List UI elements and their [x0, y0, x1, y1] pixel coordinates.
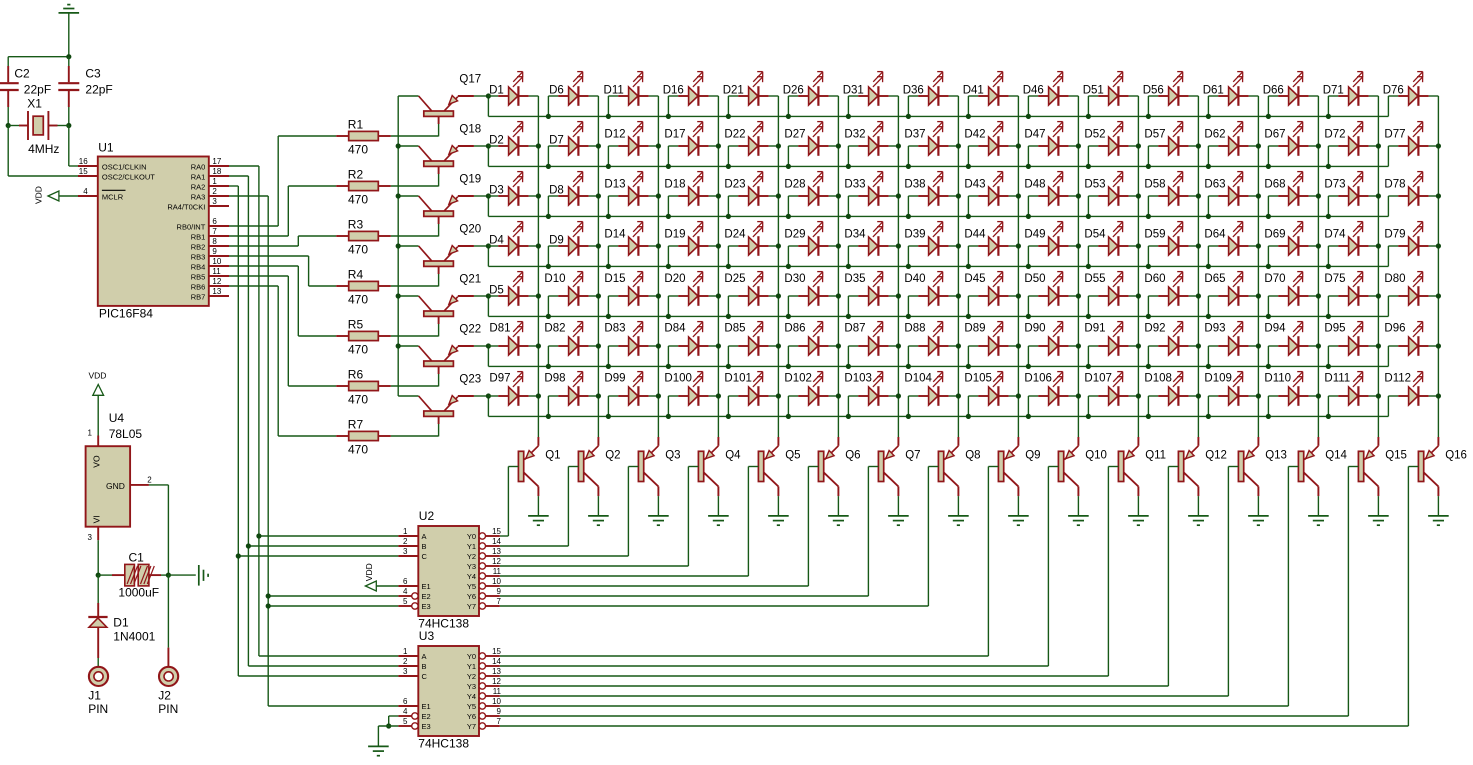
svg-text:D25: D25: [724, 273, 745, 285]
svg-text:11: 11: [212, 267, 221, 276]
svg-text:D12: D12: [604, 129, 625, 141]
svg-text:14: 14: [492, 657, 501, 666]
svg-text:D23: D23: [724, 179, 745, 191]
svg-text:1: 1: [212, 177, 217, 186]
svg-text:D77: D77: [1384, 129, 1405, 141]
svg-text:10: 10: [492, 697, 501, 706]
svg-text:VDD: VDD: [34, 186, 44, 204]
svg-text:Y6: Y6: [467, 592, 476, 601]
svg-text:D48: D48: [1024, 179, 1045, 191]
svg-text:E2: E2: [422, 592, 431, 601]
svg-text:8: 8: [212, 237, 217, 246]
svg-text:D1: D1: [113, 616, 129, 630]
svg-text:Q20: Q20: [459, 223, 481, 235]
svg-text:Q12: Q12: [1205, 450, 1227, 462]
svg-text:D8: D8: [549, 185, 564, 197]
svg-text:D43: D43: [964, 179, 985, 191]
svg-text:15: 15: [492, 647, 501, 656]
svg-text:Q2: Q2: [605, 450, 620, 462]
svg-text:D107: D107: [1084, 373, 1112, 385]
svg-text:6: 6: [403, 577, 408, 586]
svg-text:E2: E2: [422, 712, 431, 721]
svg-text:9: 9: [497, 587, 502, 596]
svg-text:D66: D66: [1263, 85, 1284, 97]
svg-text:D80: D80: [1384, 273, 1405, 285]
svg-text:Y0: Y0: [467, 652, 476, 661]
svg-text:10: 10: [212, 257, 221, 266]
svg-text:D94: D94: [1264, 323, 1286, 335]
svg-text:Y7: Y7: [467, 602, 476, 611]
svg-text:D75: D75: [1324, 273, 1345, 285]
svg-text:VO: VO: [92, 455, 102, 468]
svg-text:D76: D76: [1383, 85, 1404, 97]
svg-text:RB7: RB7: [191, 292, 206, 301]
svg-text:D35: D35: [844, 273, 865, 285]
svg-text:D45: D45: [964, 273, 985, 285]
svg-text:Q5: Q5: [785, 450, 800, 462]
svg-text:9: 9: [212, 247, 217, 256]
svg-text:Y2: Y2: [467, 672, 476, 681]
svg-text:18: 18: [212, 167, 221, 176]
svg-text:MCLR: MCLR: [102, 193, 124, 202]
svg-text:C1: C1: [129, 551, 145, 565]
svg-text:13: 13: [492, 667, 501, 676]
svg-text:PIC16F84: PIC16F84: [99, 307, 153, 321]
svg-text:E3: E3: [422, 602, 431, 611]
svg-text:D36: D36: [903, 85, 924, 97]
svg-text:Q6: Q6: [845, 450, 860, 462]
svg-text:470: 470: [348, 343, 368, 357]
svg-text:RA3: RA3: [191, 192, 206, 201]
svg-text:D60: D60: [1144, 273, 1165, 285]
svg-text:Q22: Q22: [459, 323, 481, 335]
svg-text:D14: D14: [604, 229, 626, 241]
svg-text:1N4001: 1N4001: [113, 629, 155, 643]
svg-text:D1: D1: [489, 85, 504, 97]
svg-text:RB2: RB2: [191, 242, 206, 251]
svg-text:D109: D109: [1204, 373, 1232, 385]
svg-text:PIN: PIN: [158, 702, 178, 716]
svg-text:1: 1: [88, 429, 93, 438]
svg-text:Q16: Q16: [1445, 450, 1467, 462]
svg-text:13: 13: [212, 287, 221, 296]
svg-text:470: 470: [348, 393, 368, 407]
svg-text:D32: D32: [844, 129, 865, 141]
svg-text:D86: D86: [784, 323, 805, 335]
svg-text:RA1: RA1: [191, 172, 206, 181]
svg-text:D20: D20: [664, 273, 685, 285]
svg-text:Y2: Y2: [467, 552, 476, 561]
svg-text:A: A: [422, 652, 427, 661]
svg-text:Q3: Q3: [665, 450, 680, 462]
svg-text:OSC1/CLKIN: OSC1/CLKIN: [102, 163, 147, 172]
svg-text:22pF: 22pF: [24, 82, 51, 96]
svg-text:E1: E1: [422, 582, 431, 591]
svg-text:R5: R5: [348, 318, 364, 332]
svg-text:RB0/INT: RB0/INT: [177, 222, 206, 231]
svg-text:D70: D70: [1264, 273, 1285, 285]
svg-text:D27: D27: [784, 129, 805, 141]
svg-text:D88: D88: [904, 323, 925, 335]
svg-text:A: A: [422, 532, 427, 541]
svg-text:Y1: Y1: [467, 542, 476, 551]
svg-text:D57: D57: [1144, 129, 1165, 141]
svg-text:13: 13: [492, 547, 501, 556]
svg-text:16: 16: [79, 157, 88, 166]
svg-text:D110: D110: [1264, 373, 1291, 385]
svg-text:5: 5: [403, 597, 408, 606]
svg-text:D50: D50: [1024, 273, 1045, 285]
svg-text:D104: D104: [904, 373, 932, 385]
svg-text:D6: D6: [549, 85, 564, 97]
svg-text:2: 2: [403, 537, 408, 546]
svg-text:22pF: 22pF: [85, 82, 112, 96]
svg-text:C: C: [422, 672, 428, 681]
svg-text:Y6: Y6: [467, 712, 476, 721]
svg-text:D65: D65: [1204, 273, 1225, 285]
svg-text:2: 2: [147, 476, 152, 485]
svg-text:11: 11: [493, 687, 502, 696]
svg-text:D49: D49: [1024, 229, 1045, 241]
svg-text:D52: D52: [1084, 129, 1105, 141]
svg-text:470: 470: [348, 243, 368, 257]
svg-text:12: 12: [492, 677, 501, 686]
svg-text:D81: D81: [489, 323, 510, 335]
svg-text:D18: D18: [664, 179, 685, 191]
svg-text:4: 4: [403, 587, 408, 596]
svg-text:15: 15: [79, 167, 88, 176]
svg-text:D79: D79: [1384, 229, 1405, 241]
svg-text:D17: D17: [664, 129, 685, 141]
svg-text:R6: R6: [348, 368, 364, 382]
svg-text:Q21: Q21: [459, 273, 481, 285]
svg-text:C: C: [422, 552, 428, 561]
svg-text:D74: D74: [1324, 229, 1346, 241]
svg-text:D71: D71: [1323, 85, 1344, 97]
svg-text:D9: D9: [549, 235, 564, 247]
svg-text:D40: D40: [904, 273, 925, 285]
svg-text:D64: D64: [1204, 229, 1226, 241]
svg-text:3: 3: [88, 533, 93, 542]
svg-text:D106: D106: [1024, 373, 1052, 385]
svg-text:RA4/T0CKI: RA4/T0CKI: [167, 202, 205, 211]
svg-text:3: 3: [212, 197, 217, 206]
svg-text:D22: D22: [724, 129, 745, 141]
svg-text:D10: D10: [544, 273, 565, 285]
svg-text:Q15: Q15: [1385, 450, 1407, 462]
svg-text:7: 7: [212, 227, 217, 236]
svg-text:PIN: PIN: [88, 702, 108, 716]
svg-text:Q10: Q10: [1085, 450, 1107, 462]
svg-text:B: B: [422, 662, 427, 671]
svg-text:6: 6: [212, 217, 217, 226]
svg-text:E1: E1: [422, 702, 431, 711]
svg-text:D97: D97: [489, 373, 510, 385]
svg-text:C2: C2: [14, 66, 30, 80]
svg-text:D93: D93: [1204, 323, 1225, 335]
svg-text:D15: D15: [604, 273, 625, 285]
svg-text:D13: D13: [604, 179, 625, 191]
svg-text:D39: D39: [904, 229, 925, 241]
svg-text:D105: D105: [964, 373, 992, 385]
svg-text:D61: D61: [1203, 85, 1224, 97]
svg-text:17: 17: [212, 157, 221, 166]
svg-text:D34: D34: [844, 229, 866, 241]
svg-text:R7: R7: [348, 418, 364, 432]
svg-text:D84: D84: [664, 323, 686, 335]
svg-text:J2: J2: [158, 688, 171, 702]
svg-text:1: 1: [403, 527, 408, 536]
svg-text:6: 6: [403, 697, 408, 706]
svg-text:R3: R3: [348, 218, 364, 232]
svg-text:Q9: Q9: [1025, 450, 1040, 462]
svg-text:VDD: VDD: [364, 563, 374, 581]
svg-text:D41: D41: [963, 85, 984, 97]
svg-text:D73: D73: [1324, 179, 1345, 191]
svg-text:Y0: Y0: [467, 532, 476, 541]
svg-text:4MHz: 4MHz: [28, 142, 59, 156]
svg-text:7: 7: [497, 717, 502, 726]
svg-text:RA2: RA2: [191, 182, 206, 191]
svg-text:74HC138: 74HC138: [418, 737, 469, 751]
svg-text:Q19: Q19: [459, 173, 481, 185]
svg-text:D59: D59: [1144, 229, 1165, 241]
svg-text:U4: U4: [109, 411, 125, 425]
svg-text:D63: D63: [1204, 179, 1225, 191]
svg-text:D7: D7: [549, 135, 564, 147]
svg-text:D37: D37: [904, 129, 925, 141]
svg-text:B: B: [422, 542, 427, 551]
svg-text:D99: D99: [604, 373, 625, 385]
svg-text:Q1: Q1: [545, 450, 560, 462]
svg-text:Y5: Y5: [467, 582, 476, 591]
svg-text:11: 11: [493, 567, 502, 576]
svg-text:D87: D87: [844, 323, 865, 335]
svg-text:D24: D24: [724, 229, 746, 241]
svg-text:C3: C3: [85, 66, 101, 80]
svg-text:2: 2: [212, 187, 217, 196]
svg-text:D53: D53: [1084, 179, 1105, 191]
svg-text:RA0: RA0: [191, 162, 206, 171]
svg-text:D11: D11: [604, 85, 624, 97]
svg-text:X1: X1: [27, 97, 42, 111]
svg-text:D46: D46: [1023, 85, 1044, 97]
svg-text:OSC2/CLKOUT: OSC2/CLKOUT: [102, 173, 155, 182]
svg-text:5: 5: [403, 717, 408, 726]
svg-text:D55: D55: [1084, 273, 1105, 285]
svg-text:4: 4: [83, 187, 88, 196]
svg-text:Q17: Q17: [459, 73, 481, 85]
svg-text:VI: VI: [92, 515, 102, 523]
svg-text:R2: R2: [348, 168, 364, 182]
svg-text:U2: U2: [419, 509, 435, 523]
svg-text:D38: D38: [904, 179, 925, 191]
svg-text:Y1: Y1: [467, 662, 476, 671]
svg-text:3: 3: [403, 547, 408, 556]
svg-text:R4: R4: [348, 268, 364, 282]
svg-text:RB5: RB5: [191, 272, 206, 281]
svg-text:GND: GND: [106, 481, 125, 491]
svg-text:D3: D3: [489, 185, 504, 197]
svg-text:78L05: 78L05: [109, 427, 143, 441]
svg-text:D98: D98: [544, 373, 565, 385]
svg-text:R1: R1: [348, 118, 364, 132]
svg-text:RB1: RB1: [191, 232, 206, 241]
svg-text:D4: D4: [489, 235, 504, 247]
svg-text:D91: D91: [1084, 323, 1105, 335]
svg-text:Y7: Y7: [467, 722, 476, 731]
svg-text:D92: D92: [1144, 323, 1165, 335]
svg-text:2: 2: [403, 657, 408, 666]
svg-text:U1: U1: [98, 141, 114, 155]
svg-text:D42: D42: [964, 129, 985, 141]
svg-text:D26: D26: [783, 85, 804, 97]
svg-text:Y3: Y3: [467, 682, 476, 691]
svg-text:RB6: RB6: [191, 282, 206, 291]
svg-text:D89: D89: [964, 323, 985, 335]
svg-text:D44: D44: [964, 229, 986, 241]
svg-text:D96: D96: [1384, 323, 1405, 335]
svg-text:D69: D69: [1264, 229, 1285, 241]
svg-text:3: 3: [403, 667, 408, 676]
svg-text:Q4: Q4: [725, 450, 741, 462]
svg-text:D28: D28: [784, 179, 805, 191]
svg-text:12: 12: [492, 557, 501, 566]
svg-text:9: 9: [497, 707, 502, 716]
svg-text:D54: D54: [1084, 229, 1106, 241]
svg-text:D85: D85: [724, 323, 745, 335]
svg-text:1: 1: [403, 647, 408, 656]
svg-text:E3: E3: [422, 722, 431, 731]
svg-text:470: 470: [348, 143, 368, 157]
svg-text:Q23: Q23: [459, 373, 481, 385]
svg-text:J1: J1: [88, 688, 101, 702]
svg-text:D67: D67: [1264, 129, 1285, 141]
svg-text:Q11: Q11: [1145, 450, 1166, 462]
svg-text:D33: D33: [844, 179, 865, 191]
svg-text:D19: D19: [664, 229, 685, 241]
svg-text:Y4: Y4: [467, 572, 476, 581]
svg-text:1000uF: 1000uF: [118, 586, 159, 600]
svg-text:D90: D90: [1024, 323, 1045, 335]
svg-text:RB4: RB4: [191, 262, 206, 271]
svg-text:470: 470: [348, 293, 368, 307]
svg-text:Y5: Y5: [467, 702, 476, 711]
svg-text:D68: D68: [1264, 179, 1285, 191]
svg-text:Y3: Y3: [467, 562, 476, 571]
svg-text:RB3: RB3: [191, 252, 206, 261]
svg-text:Q14: Q14: [1325, 450, 1347, 462]
svg-text:D108: D108: [1144, 373, 1172, 385]
svg-text:D95: D95: [1324, 323, 1345, 335]
svg-text:Q7: Q7: [905, 450, 920, 462]
svg-text:D5: D5: [489, 285, 504, 297]
svg-text:D102: D102: [784, 373, 812, 385]
svg-text:D111: D111: [1324, 373, 1350, 385]
svg-text:D78: D78: [1384, 179, 1405, 191]
svg-text:D62: D62: [1204, 129, 1225, 141]
svg-text:15: 15: [492, 527, 501, 536]
svg-text:D100: D100: [664, 373, 692, 385]
svg-text:D30: D30: [784, 273, 805, 285]
svg-text:12: 12: [212, 277, 221, 286]
svg-text:D58: D58: [1144, 179, 1165, 191]
svg-text:D47: D47: [1024, 129, 1045, 141]
svg-text:D82: D82: [544, 323, 565, 335]
svg-text:Q18: Q18: [459, 123, 481, 135]
svg-text:D2: D2: [489, 135, 504, 147]
svg-text:10: 10: [492, 577, 501, 586]
svg-text:D103: D103: [844, 373, 872, 385]
svg-text:D31: D31: [843, 85, 864, 97]
svg-text:U3: U3: [419, 629, 435, 643]
svg-text:D72: D72: [1324, 129, 1345, 141]
svg-text:D56: D56: [1143, 85, 1164, 97]
svg-text:D51: D51: [1083, 85, 1104, 97]
svg-text:D112: D112: [1384, 373, 1411, 385]
svg-text:VDD: VDD: [89, 371, 107, 381]
svg-text:14: 14: [492, 537, 501, 546]
svg-text:D29: D29: [784, 229, 805, 241]
svg-text:4: 4: [403, 707, 408, 716]
svg-text:D21: D21: [723, 85, 744, 97]
svg-text:Q8: Q8: [965, 450, 980, 462]
svg-text:D101: D101: [724, 373, 752, 385]
svg-text:D83: D83: [604, 323, 625, 335]
svg-text:D16: D16: [663, 85, 684, 97]
svg-text:Q13: Q13: [1265, 450, 1287, 462]
svg-text:Y4: Y4: [467, 692, 476, 701]
svg-text:470: 470: [348, 443, 368, 457]
svg-text:470: 470: [348, 193, 368, 207]
svg-text:7: 7: [497, 597, 502, 606]
